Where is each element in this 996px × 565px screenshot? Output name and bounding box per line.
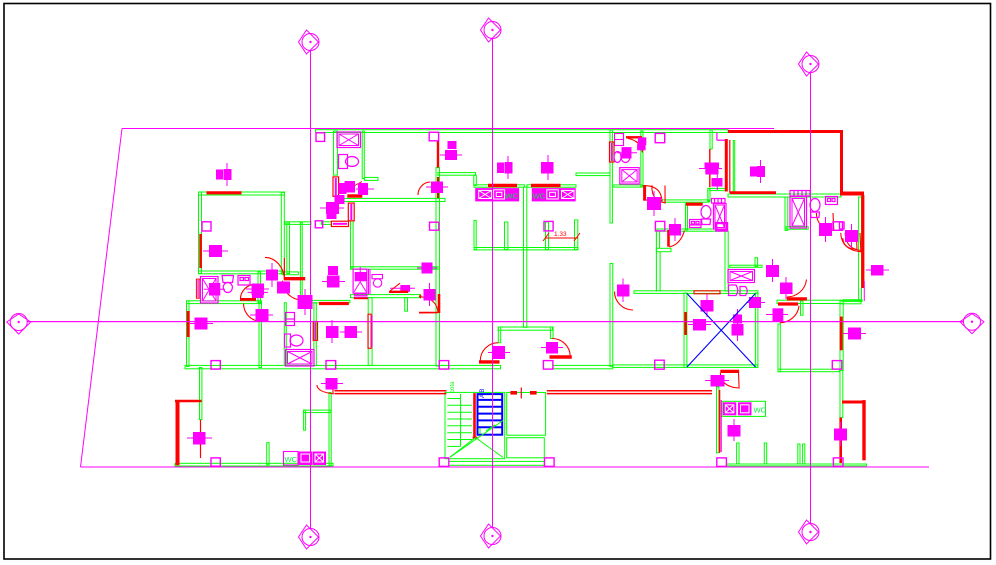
boundary left slant xyxy=(81,129,123,468)
radiator bath3 xyxy=(712,199,726,204)
fixture cluster mid xyxy=(320,196,344,219)
red outline bar blue room top xyxy=(694,291,720,294)
red seg x725 terrace xyxy=(725,139,728,192)
WC strip top wall xyxy=(474,185,524,187)
bath3 top-right wall xyxy=(710,188,726,190)
toilet bathL xyxy=(222,276,234,293)
fixture sym xyxy=(390,286,415,292)
fixture sym x852 xyxy=(846,224,858,248)
right corridor wall y301 xyxy=(777,300,843,303)
wall step down to WC xyxy=(474,175,477,185)
red seg left wall lower xyxy=(187,311,190,337)
WC unit bottom left xyxy=(284,452,327,466)
red right wall upper xyxy=(840,130,843,192)
vestibule left wall xyxy=(498,327,500,343)
column sq xyxy=(211,361,220,370)
bath4 top wall xyxy=(728,194,841,197)
svg-text:1.33: 1.33 xyxy=(554,231,567,238)
column sq bottom wall left xyxy=(211,458,220,466)
red door frame WC mid xyxy=(313,322,317,341)
wall bottom stair xyxy=(449,461,544,465)
fixture sym xyxy=(246,284,269,295)
central-right wall x611 upper xyxy=(610,130,612,223)
column sq xyxy=(655,133,665,142)
red bars right corridor a xyxy=(787,297,807,300)
stair treads left flight (green) xyxy=(447,394,472,446)
fixture sym xyxy=(190,318,213,329)
vestibule top wall left xyxy=(498,327,552,330)
left lower room bottom wall xyxy=(185,365,501,368)
fixture sym xyxy=(187,433,212,445)
corridor left low wall xyxy=(300,223,302,303)
axis bubble top 2 xyxy=(484,22,501,39)
red L bottom-left horizontal xyxy=(175,400,202,403)
left outer wall lower xyxy=(187,301,190,367)
fixture sym top bath2 door xyxy=(638,138,646,150)
wall y172 between 576 and 610 xyxy=(576,173,610,176)
right corridor wall x801 xyxy=(801,301,804,315)
small box near x611 wall xyxy=(615,134,624,146)
axis bubble right xyxy=(964,313,981,330)
red bars right corridor b xyxy=(778,302,798,305)
column sq xyxy=(326,361,336,370)
wall y295 below big room xyxy=(351,295,420,298)
red door frame big room xyxy=(348,203,354,221)
fixture sym blue room a xyxy=(701,294,713,317)
door arc corridor bottom xyxy=(282,281,302,300)
stair blue flight xyxy=(478,394,503,435)
red seg right wall x841 lower xyxy=(840,317,843,351)
column sq bottom wall xyxy=(833,458,843,467)
fixture sym big x654 xyxy=(648,191,661,216)
small box divider xyxy=(615,139,624,141)
WC unit strip top right xyxy=(532,188,576,201)
fixture sym x757 xyxy=(751,160,765,183)
bottom-right room bottom wall xyxy=(778,369,840,372)
svg-text:cota: cota xyxy=(450,381,456,393)
column sq xyxy=(832,361,842,370)
bath5 left wall x726 xyxy=(725,231,728,291)
blue room top wall xyxy=(634,291,758,294)
boiler fixture xyxy=(353,267,370,297)
axis bubble bottom 1 xyxy=(302,529,319,546)
closet bottom wall xyxy=(474,248,578,250)
toilet bath top-mid xyxy=(339,155,359,169)
room A right wall xyxy=(281,193,284,274)
stair right box upper xyxy=(507,393,546,436)
axis bubble top 3 xyxy=(802,56,819,73)
lower-middle hook 1 xyxy=(267,443,269,465)
bath L right wall xyxy=(258,272,261,303)
door arc kitchen right xyxy=(418,182,430,195)
door arc bottom left of stair xyxy=(317,385,333,394)
bottom WC2 walls hook b xyxy=(764,443,766,464)
corridor bottom wall xyxy=(312,300,350,303)
top bath mid: bottom stub right xyxy=(364,177,378,180)
shaft with X bath top-mid xyxy=(337,132,361,148)
door arc hall x668 xyxy=(669,231,684,247)
column sq xyxy=(833,222,843,231)
axis line vertical 3 xyxy=(810,73,812,524)
column sq xyxy=(315,221,322,228)
radiator bath4 xyxy=(790,191,810,197)
column sq xyxy=(430,222,439,230)
fixture sym big corridor xyxy=(298,289,312,315)
fixture sym bath2 xyxy=(617,148,637,158)
bottom WC2 walls hook a xyxy=(737,443,739,464)
stair red stringer xyxy=(473,393,476,438)
fixture sym xyxy=(278,282,290,293)
door arc right narrow room xyxy=(843,238,857,249)
wall x707-709 mid xyxy=(708,188,710,201)
corridor bottom stub xyxy=(282,272,298,275)
fixture sym bottom x718 xyxy=(705,376,729,387)
toilet right of boiler xyxy=(372,275,383,288)
axis bubble bottom 3 xyxy=(802,524,819,541)
bath2 right wall xyxy=(641,131,643,187)
fixture sym x877 outside xyxy=(866,266,889,276)
magenta line bottom-mid wall xyxy=(720,400,722,452)
red leaf bath2 top xyxy=(626,136,642,138)
red band bottom right of stair (double) xyxy=(547,390,712,392)
bottom-right room left wall xyxy=(778,324,780,372)
small sq outline right wall xyxy=(840,222,845,229)
fixture sym xyxy=(542,155,554,180)
column sq xyxy=(543,361,553,370)
door leaf bathL upper xyxy=(240,298,256,301)
axis line vertical 2 xyxy=(492,39,494,528)
door arc left-lower room xyxy=(244,304,262,322)
wall y200 from 662 to 709 xyxy=(662,200,709,202)
stair right box lower xyxy=(507,438,545,458)
central wall x525 xyxy=(524,187,527,327)
door arc top right room xyxy=(615,292,634,311)
column sq (thick) xyxy=(716,223,727,231)
bottom-mid wall x719 xyxy=(717,387,719,453)
red right wall x863 xyxy=(861,195,864,288)
top bath mid: left wall xyxy=(334,131,338,175)
closet divider v2 xyxy=(505,222,508,250)
axis bubble left xyxy=(10,314,27,331)
corridor top wall right part xyxy=(322,222,332,225)
blue room bottom wall xyxy=(613,365,758,368)
WC strip top wall right xyxy=(527,185,576,187)
fixture sym x855 xyxy=(843,328,866,339)
bath L bottom wall xyxy=(187,301,261,304)
fixture sym xyxy=(440,142,462,160)
top bath2 bottom wall xyxy=(614,185,642,187)
fixture sym xyxy=(426,182,448,193)
red seg blue room left wall xyxy=(684,312,687,335)
red seg room B left mid xyxy=(438,294,441,313)
toilet bath5 a xyxy=(729,285,738,296)
bath4 left wall xyxy=(785,197,788,230)
red door frame x645 xyxy=(643,185,646,201)
shaft with X bath2 xyxy=(620,168,639,184)
stair left outer box xyxy=(445,392,505,458)
room A top wall xyxy=(199,192,285,195)
axis line vertical 1 xyxy=(310,51,312,529)
column sq xyxy=(655,221,664,231)
red L bottom-right vertical xyxy=(862,400,865,460)
wall top main xyxy=(316,130,729,133)
fixture sym xyxy=(203,246,228,257)
fixture sym x755 low xyxy=(747,298,765,308)
door arc bottom mid xyxy=(720,373,739,388)
fixture sym xyxy=(424,283,435,306)
bath5 right stub xyxy=(755,258,758,267)
wall bottom left xyxy=(175,463,333,466)
wall bottom right xyxy=(727,464,867,466)
top bath mid: right wall xyxy=(362,131,364,178)
column sq xyxy=(429,132,438,141)
hall wall x660 right line lower xyxy=(659,252,661,292)
fixture sym bathL door upper xyxy=(248,288,269,298)
red bar y193 right xyxy=(840,192,864,196)
red bar bottom y371 doorway xyxy=(720,370,739,373)
fixture sym left-lower door xyxy=(250,310,273,321)
door arc vestibule right xyxy=(552,338,570,355)
kitchen top wall / big room top wall xyxy=(337,198,445,201)
vestibule right wall xyxy=(550,327,553,339)
red faucet line kitchen xyxy=(354,182,362,187)
door frame bath2 (red+magenta) xyxy=(610,142,615,162)
fixture sym hall right xyxy=(670,218,681,241)
bath3 right-step wall xyxy=(708,188,710,201)
fixture sym xyxy=(217,163,232,186)
column sq xyxy=(439,361,449,370)
fixture sym vestibule R xyxy=(541,343,563,354)
lower-middle WC walls: horizontal y411 xyxy=(304,410,331,413)
stub below left lower room xyxy=(200,368,202,420)
red seg below corridor arc xyxy=(285,277,306,280)
sink bath3 xyxy=(690,220,702,228)
WC unit strip top left xyxy=(475,188,519,201)
svg-text:WC: WC xyxy=(754,406,767,415)
fixture pair x711 xyxy=(699,163,722,190)
column sq xyxy=(202,222,211,231)
door arc right corridor b xyxy=(780,306,799,323)
column sq bottom wall xyxy=(545,458,555,467)
blue diagonal 1 xyxy=(687,294,755,368)
red stair door marks xyxy=(510,391,517,395)
room A bottom wall / bath top xyxy=(199,271,284,274)
shaft with X bath5 xyxy=(728,270,755,283)
fixture sym xyxy=(498,156,513,179)
WC unit bottom right xyxy=(722,401,767,416)
right rooms connector y300 xyxy=(843,300,862,302)
fixture sym corridor right b xyxy=(340,327,362,338)
stub x406 xyxy=(405,298,408,312)
column sq xyxy=(316,133,325,142)
bottom wall right segment y366 xyxy=(553,365,613,368)
blue room left wall xyxy=(684,293,687,367)
wall above WC strip xyxy=(438,173,476,176)
wall x710 top xyxy=(710,130,712,149)
toilet bath3 xyxy=(701,206,711,225)
red seg room A left xyxy=(199,234,202,268)
bottom hooks x798-804 xyxy=(798,444,800,465)
red seg x711 xyxy=(709,149,711,187)
fixture sym corridor right a xyxy=(327,320,339,343)
closet divider v1 xyxy=(474,220,476,249)
small box bath4 xyxy=(826,197,838,205)
bath5 top wall xyxy=(730,265,762,267)
fixture sym x778 xyxy=(766,309,788,321)
column sq bottom wall xyxy=(717,458,727,467)
magenta seg right wall xyxy=(863,281,865,301)
red L bottom-right horizontal xyxy=(842,401,865,404)
red threshold room B xyxy=(419,311,438,313)
door arc room A bottom xyxy=(265,257,285,280)
red door frame closet x370 xyxy=(368,314,371,348)
door arc right corridor a xyxy=(787,280,807,298)
long wall x437 xyxy=(436,168,440,366)
hall stub xyxy=(656,248,671,251)
right rooms divider y301 xyxy=(840,300,861,303)
big room bottom wall xyxy=(351,267,439,269)
shaft with X WC small mid xyxy=(286,350,315,367)
door arc vestibule left xyxy=(480,343,498,361)
red door frame kitchen xyxy=(333,177,339,196)
red seg x668 hall xyxy=(667,230,670,247)
red seg corridor bottom xyxy=(319,302,349,305)
bottom right wall x840 xyxy=(840,371,843,418)
red seg bottom mid x719 xyxy=(719,390,721,453)
red tick door y295 xyxy=(419,295,421,299)
red seg y203 bath3 xyxy=(686,203,703,206)
svg-text:WC: WC xyxy=(505,191,518,200)
fixture sym bottom x841 xyxy=(835,422,847,446)
red bar + diagonal near x400 xyxy=(389,291,408,293)
shaft with X bath4 xyxy=(790,197,807,229)
sink bathL xyxy=(238,276,250,286)
hall wall x656 left line xyxy=(655,231,657,292)
red seg bottom right x841 xyxy=(839,418,842,463)
closet divider v4 xyxy=(575,220,578,250)
green line x734 terrace xyxy=(733,141,734,195)
red door vestibule right xyxy=(550,355,572,358)
door arc bath4 xyxy=(816,213,834,231)
boundary top line xyxy=(122,128,774,130)
red bar y192 mid xyxy=(730,191,776,194)
stair break diagonals (green) xyxy=(450,421,503,458)
door arc bath3 left xyxy=(652,185,665,203)
red top wall xyxy=(728,130,842,133)
toilet bath4 xyxy=(810,199,820,218)
fixture sym xyxy=(417,263,437,273)
central-right wall x611 lower xyxy=(610,264,613,367)
svg-text:WC: WC xyxy=(533,191,546,200)
door arc room B left xyxy=(419,297,438,314)
red door vestibule left xyxy=(479,360,500,363)
fixture sym x623 xyxy=(618,279,630,303)
door leaf red bath2 top xyxy=(628,139,643,153)
WC mid room right wall xyxy=(314,303,316,366)
door arc bathL upper xyxy=(240,284,255,299)
fixture pair corridor low xyxy=(322,267,345,288)
red seg left wall lower outline xyxy=(196,279,199,298)
door arc right room bottom xyxy=(845,233,861,251)
fixture sym x773 xyxy=(767,259,779,282)
bath3 bottom wall xyxy=(657,229,727,231)
svg-text:A B: A B xyxy=(480,389,486,398)
blue room right wall xyxy=(755,293,758,367)
column sq xyxy=(655,360,665,369)
fixture sym bottom x734 xyxy=(728,419,740,441)
closet wall x370 xyxy=(368,298,372,366)
svg-text:WC: WC xyxy=(285,455,298,464)
fixture sym x787 xyxy=(781,277,793,299)
axis line horizontal xyxy=(27,321,964,323)
toilet bath2 xyxy=(614,152,621,163)
toilet bath5 b xyxy=(740,287,747,296)
fixture sym bottom left door xyxy=(321,379,343,390)
red bars above WC strip 2 xyxy=(531,184,561,187)
red seg room A top xyxy=(207,191,242,194)
corridor top wall xyxy=(285,222,311,225)
door arc x645 top xyxy=(646,186,662,201)
red bars above WC strip 1 xyxy=(488,184,517,187)
left lower room right wall xyxy=(259,301,262,368)
right narrow room right wall xyxy=(859,197,862,301)
shaft with X bath3 xyxy=(714,204,727,230)
bath3 left wall xyxy=(686,203,688,230)
fixture sym bath4 door xyxy=(820,217,832,242)
hall wall x659 right line upper xyxy=(659,231,661,249)
red stub below stub xyxy=(200,420,202,458)
fixture pair in bathL shaft xyxy=(204,284,225,296)
fixture sym blue room c xyxy=(732,309,743,341)
fixture sym xyxy=(267,263,278,287)
red seg room B right top xyxy=(437,177,439,198)
column sq bottom wall xyxy=(439,458,449,467)
corridor left wall xyxy=(287,223,290,274)
axis bubble bottom 2 xyxy=(484,528,501,545)
red seg room B left top xyxy=(437,141,439,168)
boundary bottom line xyxy=(81,466,930,468)
red band bottom left of stair (double) xyxy=(335,390,447,392)
fixture washbasin kitchen xyxy=(339,182,374,195)
toilet + fixtures WC small mid xyxy=(285,313,304,348)
door leaf corridor (red outline, magenta core) xyxy=(331,221,348,226)
shaft with X bath left (bathL) xyxy=(201,277,219,304)
blue diagonal 2 xyxy=(687,294,755,368)
door arc bottom-right terrace xyxy=(841,233,861,252)
lower-middle WC walls: vertical x330 xyxy=(329,393,331,466)
fixture sym blue room b xyxy=(688,320,711,331)
axis bubble top 1 xyxy=(302,34,319,51)
red L bottom-left vertical xyxy=(176,400,180,465)
magenta step x717 xyxy=(716,133,718,141)
boiler red base xyxy=(354,297,368,299)
stair red foot tick xyxy=(473,437,478,439)
room A left wall xyxy=(199,192,202,274)
bath4 bottom-left wall xyxy=(786,227,808,230)
closet divider v3 xyxy=(546,222,549,250)
column sq xyxy=(544,221,553,231)
WC mid room left wall xyxy=(284,303,286,366)
red seg kitchen under sink xyxy=(347,194,362,197)
fixture sym vestibule L xyxy=(488,347,510,359)
right room wall x838 xyxy=(840,301,843,371)
lower-middle WC walls: vertical x304 xyxy=(304,410,306,430)
big room left wall xyxy=(351,221,354,268)
